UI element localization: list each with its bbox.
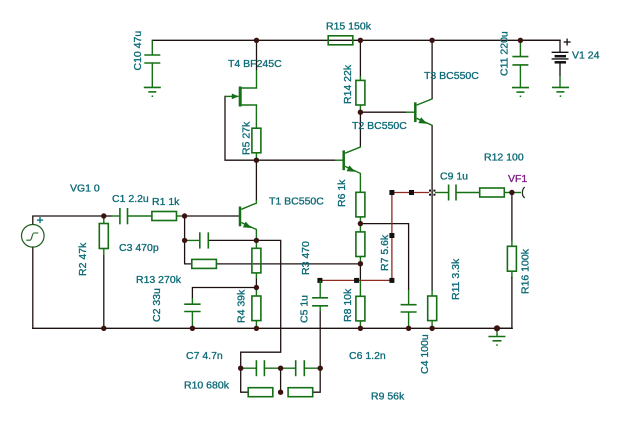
svg-text:R11 3.3k: R11 3.3k: [450, 258, 462, 300]
ground under C10: [144, 86, 161, 88]
wire bottom network right elbow: [313, 368, 321, 392]
wire R1 to node B: [177, 215, 185, 217]
resistor R6 1k: [356, 192, 365, 217]
wire R5 node to T2 base: [256, 159, 335, 161]
wire ground bus: [33, 327, 512, 329]
plus sign VG1: [37, 217, 43, 223]
svg-text:R13 270k: R13 270k: [136, 274, 182, 286]
junction dot node C: [182, 238, 187, 243]
resistor R4 39k: [252, 296, 261, 321]
source VG1: [22, 225, 45, 248]
wire rail elbow to V1: [520, 40, 560, 52]
resistor R16 100k: [507, 246, 516, 271]
ground under V1: [559, 76, 561, 87]
junction dot net mid top: [278, 366, 283, 371]
wire VG1 bottom to ground bus: [32, 247, 34, 328]
svg-text:R4 39k: R4 39k: [236, 289, 248, 323]
svg-text:R7 5.6k: R7 5.6k: [379, 234, 391, 271]
wire node C to C3 left plate: [185, 239, 200, 241]
svg-text:VF1: VF1: [508, 173, 527, 185]
resistor R14 22k: [356, 80, 365, 105]
wire R8 top leg: [359, 280, 361, 296]
svg-text:R1 1k: R1 1k: [152, 196, 180, 208]
capacitor C6 1.2n: [295, 360, 297, 376]
wire C2 top elbow to node E: [192, 288, 256, 299]
svg-text:C5 1u: C5 1u: [299, 295, 311, 323]
wire R14 node to T3 base: [360, 111, 406, 113]
wire VF1 node down to R16: [511, 193, 513, 241]
resistor R5 27k: [252, 128, 261, 153]
wire top power rail: [152, 39, 560, 41]
red wire square handle 4: [389, 233, 394, 238]
resistor R11 3.3k: [428, 296, 437, 321]
svg-text:C7 4.7n: C7 4.7n: [186, 350, 223, 362]
svg-text:C1 2.2u: C1 2.2u: [112, 193, 149, 205]
junction dot R6 R7 node: [358, 221, 363, 226]
junction dot rail C11: [518, 38, 523, 43]
battery V1 24: [552, 52, 569, 76]
junction dot node D: [254, 238, 259, 243]
junction dot R14 T2 T3 node: [358, 110, 363, 115]
junction dot R5 gate node: [254, 158, 259, 163]
resistor R2 47k: [99, 224, 108, 249]
wire bottom network left elbow: [241, 368, 249, 392]
resistor R12 100: [480, 188, 505, 197]
junction dot bus C2: [190, 326, 195, 331]
probe VF1: [512, 192, 521, 194]
wire rail to R14 top: [359, 40, 361, 76]
plus sign V1: [564, 39, 571, 46]
junction dot bus R8: [358, 326, 363, 331]
resistor R7 5.6k: [356, 232, 365, 257]
resistor R15 150k: [328, 36, 353, 45]
capacitor C1 2.2u: [119, 208, 121, 224]
junction dot bus R11: [429, 326, 434, 331]
svg-text:T4 BF245C: T4 BF245C: [228, 58, 282, 70]
svg-text:R12 100: R12 100: [484, 152, 524, 164]
junction dot rail R14: [358, 38, 363, 43]
resistor R1 1k: [152, 212, 177, 221]
junction dot VF1: [509, 190, 514, 195]
red wire square handle 1: [317, 278, 322, 283]
wire R16 bottom to ground node: [511, 271, 513, 277]
wire node A to C1: [104, 215, 112, 217]
wire output node down to R11: [431, 193, 433, 291]
junction dot bus C4: [406, 326, 411, 331]
jfet T4 BF245C: [239, 87, 242, 107]
wire T3 collector to rail: [431, 40, 433, 98]
open square handle at output node: [429, 190, 431, 192]
wire C3 right plate to node D: [209, 239, 257, 241]
resistor R9 56k: [288, 388, 313, 397]
capacitor C11 220u: [519, 40, 521, 56]
junction dot rail T4: [254, 38, 259, 43]
svg-text:R6 1k: R6 1k: [336, 179, 348, 207]
red wire square handle 3: [389, 278, 394, 283]
junction dot bus R2: [101, 326, 106, 331]
wire C6 legs: [281, 367, 296, 369]
wire C7 legs: [241, 367, 257, 369]
wire C1 to R1: [129, 215, 152, 217]
svg-text:T1 BC550C: T1 BC550C: [269, 196, 324, 208]
wire node B down to node C: [184, 216, 186, 240]
junction dot bus ground: [494, 325, 500, 331]
wire C2 bottom to bus: [191, 316, 193, 328]
svg-text:R14 22k: R14 22k: [342, 64, 354, 104]
capacitor C4 100u: [401, 304, 417, 306]
svg-text:R2 47k: R2 47k: [77, 242, 89, 276]
svg-text:T3 BC550C: T3 BC550C: [424, 70, 479, 82]
svg-text:C9 1u: C9 1u: [440, 171, 468, 183]
junction dot node B: [182, 213, 187, 218]
wire T4 gate to R5 bottom node: [225, 96, 256, 160]
wire R6 R7 node right to C4: [360, 224, 408, 290]
svg-text:R5 27k: R5 27k: [241, 121, 253, 155]
red wire square handle 6: [409, 190, 414, 195]
junction dot R7 R8 node: [358, 261, 363, 266]
resistor R10 680k: [248, 388, 273, 397]
wire T1 collector up: [255, 160, 257, 200]
wire R13 right to R7 R8 node: [217, 263, 361, 265]
wire T3 emitter down to output node: [431, 126, 433, 193]
svg-text:T2 BC550C: T2 BC550C: [352, 120, 407, 132]
junction dot node A: [101, 213, 106, 218]
svg-text:R3 470: R3 470: [300, 241, 312, 275]
wire node D right and down feedback: [241, 240, 281, 368]
junction dot net right: [318, 366, 323, 371]
red wire square handle 5: [389, 190, 394, 195]
capacitor C5 1u: [312, 297, 328, 299]
resistor R13 270k: [192, 259, 217, 268]
red wire square handle 2: [354, 278, 359, 283]
wire C5 down to bottom network: [319, 311, 321, 368]
wire T2 collector up to R14 node: [359, 112, 361, 146]
wire T4 drain to rail: [256, 40, 258, 70]
capacitor C2 33u: [184, 303, 200, 305]
svg-text:C2 33u: C2 33u: [151, 288, 163, 322]
junction dot rail T3: [429, 38, 434, 43]
svg-text:V1 24: V1 24: [572, 50, 600, 62]
wire node C down to R13: [185, 240, 192, 264]
svg-text:VG1 0: VG1 0: [70, 183, 100, 195]
junction dot bus R4: [254, 326, 259, 331]
junction dot net left: [238, 366, 243, 371]
capacitor C3 470p: [199, 232, 201, 248]
capacitor C10 47u: [151, 40, 153, 55]
wire node B to T1 base: [185, 215, 239, 217]
svg-text:C6 1.2n: C6 1.2n: [349, 350, 386, 362]
capacitor C9 1u: [448, 185, 450, 201]
wire R7 bottom node down to R8: [359, 264, 361, 280]
red selected wire C5 to R7 column: [320, 193, 429, 281]
transistor T3 BC550C: [414, 102, 417, 122]
transistor T1 BC550C: [239, 207, 242, 227]
svg-text:R9 56k: R9 56k: [371, 391, 405, 403]
resistor R8 10k: [356, 296, 365, 321]
svg-text:R15 150k: R15 150k: [326, 21, 372, 33]
svg-text:R8 10k: R8 10k: [342, 288, 354, 322]
resistor R3 470: [252, 248, 261, 273]
svg-text:R16 100k: R16 100k: [520, 248, 532, 294]
svg-text:C3 470p: C3 470p: [119, 242, 159, 254]
transistor T2 BC550C: [342, 150, 345, 170]
junction dot net mid bottom: [278, 390, 283, 395]
capacitor C7 4.7n: [255, 360, 257, 376]
svg-text:C11 220u: C11 220u: [499, 31, 511, 76]
ground main at bus: [496, 328, 498, 336]
ground under C11: [512, 87, 529, 89]
junction dot node E: [254, 285, 259, 290]
svg-text:C4 100u: C4 100u: [419, 334, 431, 374]
wire bottom network mid connector: [280, 368, 282, 392]
svg-text:R10 680k: R10 680k: [184, 380, 230, 392]
svg-text:C10 47u: C10 47u: [132, 31, 144, 71]
wire VG1 top to node A: [33, 216, 104, 224]
